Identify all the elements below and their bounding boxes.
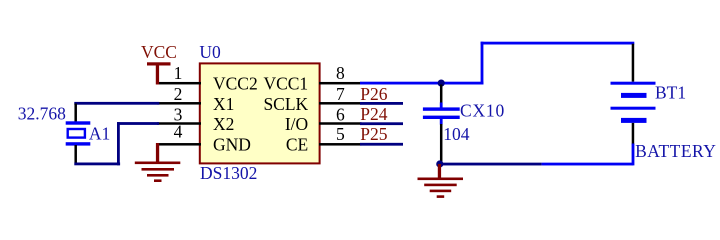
ground symbol GND2 bar3	[430, 190, 452, 193]
svg-text:VCC2: VCC2	[213, 74, 258, 94]
power symbol VCC bar	[147, 62, 171, 65]
pin 1 VCC2 stub	[157, 82, 201, 85]
battery BT1 plate 4 short	[621, 118, 647, 123]
capacitor CX10 bottom plate	[423, 116, 460, 119]
ground symbol GND2 stem	[438, 164, 441, 179]
battery BT1 bottom pin	[632, 123, 635, 144]
capacitor CX10 bottom pin	[440, 124, 443, 163]
svg-text:5: 5	[336, 124, 345, 144]
svg-text:4: 4	[174, 122, 183, 142]
battery BT1 plate 3 long	[611, 107, 656, 110]
pin 5 CE stub	[319, 143, 362, 146]
capacitor CX10 top plate	[423, 107, 460, 110]
pin 2 X1 stub	[157, 102, 201, 105]
svg-text:X1: X1	[213, 94, 234, 114]
pin 4 GND stub	[157, 143, 201, 146]
battery BT1 plate 2 short	[621, 93, 647, 98]
pin 8 VCC1 stub	[319, 82, 362, 85]
svg-text:GND: GND	[213, 134, 251, 154]
capacitor CX10 top pin	[440, 85, 443, 104]
svg-text:P25: P25	[360, 124, 387, 144]
svg-text:P26: P26	[360, 84, 387, 104]
ground symbol GND2 bar2	[424, 184, 457, 187]
svg-text:6: 6	[336, 104, 345, 124]
wire battery bottom to bottom net	[632, 144, 635, 166]
wire bottom net junction to midpoint (dark segment)	[440, 163, 542, 166]
svg-text:7: 7	[336, 84, 345, 104]
wire net P24	[360, 122, 403, 125]
ground symbol GND2 bar4	[437, 195, 445, 198]
svg-text:VCC1: VCC1	[263, 74, 308, 94]
svg-text:CX10: CX10	[460, 101, 505, 121]
wire pin3 horizontal	[117, 122, 159, 125]
wire net P26	[360, 102, 403, 105]
battery BT1 top pin	[632, 44, 635, 82]
wire vertical riser to top rail	[481, 42, 484, 85]
capacitor CX10 top pin blue segment	[440, 103, 443, 109]
svg-text:CE: CE	[286, 134, 308, 154]
svg-text:X2: X2	[213, 114, 234, 134]
wire top rail to battery	[481, 42, 635, 45]
junction node at capacitor top	[438, 80, 445, 87]
pin 7 SCLK stub	[319, 102, 362, 105]
pin 3 X2 stub	[157, 122, 201, 125]
wire pin2 to crystal top	[74, 102, 159, 105]
IC U0 DS1302 body	[200, 63, 320, 163]
svg-text:BT1: BT1	[655, 83, 686, 103]
crystal A1 bottom plate	[66, 142, 91, 145]
battery BT1 plate 1 long	[611, 82, 656, 85]
wire net P25	[360, 143, 403, 146]
svg-text:8: 8	[336, 63, 345, 83]
svg-text:U0: U0	[199, 42, 221, 62]
svg-text:SCLK: SCLK	[263, 94, 308, 114]
wire bottom net midpoint to battery (bright segment)	[542, 163, 633, 166]
svg-text:VCC: VCC	[141, 42, 177, 62]
ground symbol GND1 bar1	[135, 162, 181, 165]
wire pin8 net VCC1 horizontal	[360, 82, 483, 85]
ground symbol GND1 stem	[156, 143, 159, 163]
svg-text:A1: A1	[89, 124, 110, 144]
capacitor CX10 bottom pin blue segment	[440, 118, 443, 125]
svg-text:104: 104	[443, 124, 470, 144]
ground symbol GND1 bar4	[154, 179, 162, 182]
svg-text:BATTERY: BATTERY	[635, 141, 716, 161]
power symbol VCC stem	[156, 63, 159, 85]
pin 6 I/O stub	[319, 122, 362, 125]
ground symbol GND2 bar1	[418, 178, 464, 181]
junction node at capacitor bottom	[436, 160, 443, 167]
crystal A1 bottom pin	[74, 145, 77, 163]
crystal A1 top plate	[66, 121, 91, 124]
svg-text:P24: P24	[360, 104, 387, 124]
svg-text:2: 2	[174, 84, 183, 104]
svg-text:DS1302: DS1302	[200, 163, 257, 183]
crystal A1 body rectangle	[68, 129, 85, 138]
ground symbol GND1 bar3	[147, 174, 169, 177]
wire crystal bottom run	[74, 163, 120, 166]
svg-text:I/O: I/O	[285, 114, 308, 134]
svg-text:32.768: 32.768	[18, 104, 66, 124]
ground symbol GND1 bar2	[142, 168, 175, 171]
svg-text:1: 1	[174, 63, 183, 83]
wire vertical up to pin3 row	[117, 122, 120, 165]
crystal A1 top pin	[74, 104, 77, 123]
